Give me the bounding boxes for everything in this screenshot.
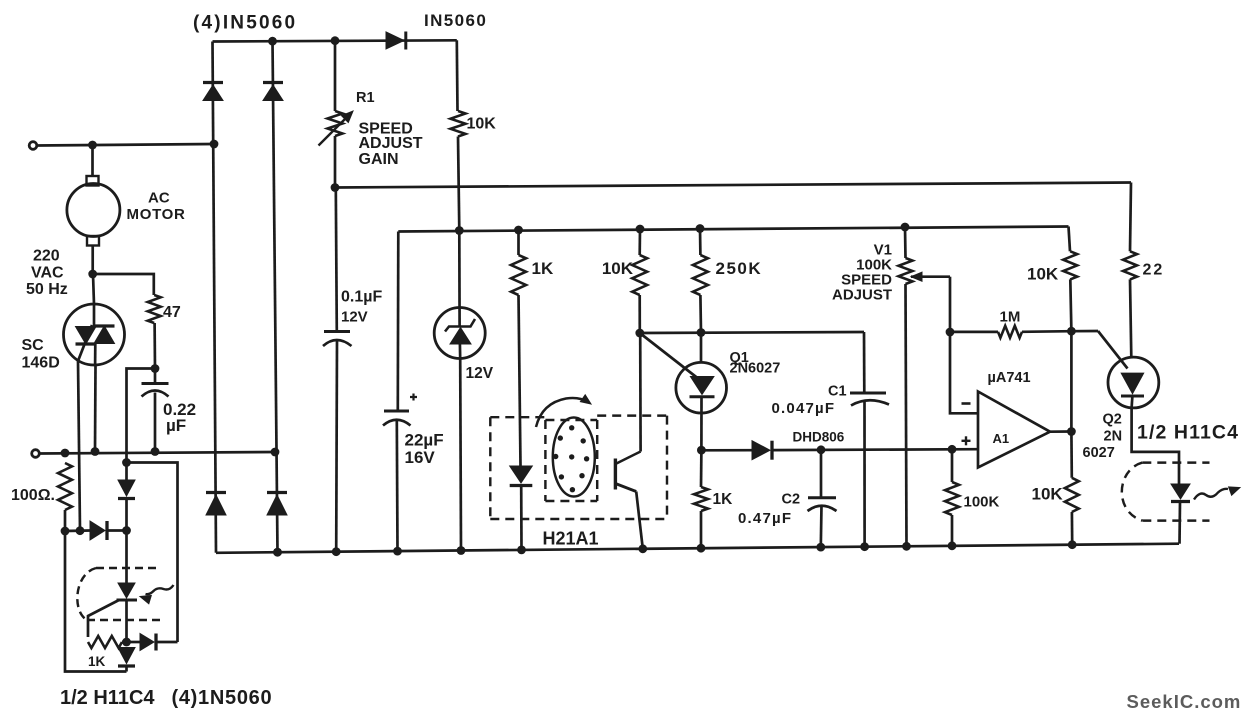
diode opto chain bottom right	[127, 641, 141, 644]
wire top bus	[213, 40, 457, 41]
diode bridge D2	[263, 85, 283, 101]
svg-text:2N6027: 2N6027	[730, 361, 781, 377]
phototransistor H21A1	[614, 459, 617, 490]
wire bridge column 2	[273, 41, 278, 552]
resistor 1M	[950, 331, 998, 334]
wire gate node row	[640, 332, 864, 333]
node Q1 anode	[697, 328, 706, 337]
node 1K cathode ground	[697, 544, 706, 553]
svg-text:µF: µF	[166, 416, 186, 435]
node emitter ground	[638, 544, 647, 553]
wire triac MT1	[94, 365, 97, 452]
svg-text:VAC: VAC	[31, 264, 64, 281]
node triac gate on row	[76, 526, 85, 535]
chopper wheel	[553, 418, 595, 497]
node bridge col2 top	[268, 37, 277, 46]
node C1 ground	[860, 542, 869, 551]
svg-text:10K: 10K	[1032, 485, 1064, 504]
node V1 ground	[902, 542, 911, 551]
svg-text:16V: 16V	[405, 448, 436, 467]
node 0.1uF ground	[332, 547, 341, 556]
node 22uF ground	[393, 547, 402, 556]
wire Q1 gate diagonal	[640, 333, 698, 378]
svg-text:1K: 1K	[713, 491, 734, 508]
wire motor to triac	[91, 246, 94, 275]
node triac MT1 on AC line	[91, 447, 100, 456]
resistor 10K mid	[638, 229, 641, 255]
wire inverting input	[950, 332, 977, 413]
light arrow into SCR	[146, 585, 174, 594]
svg-text:6027: 6027	[1083, 445, 1115, 461]
svg-text:0.1µF: 0.1µF	[341, 289, 382, 306]
svg-text:H21A1: H21A1	[543, 529, 599, 549]
dashed outline H21A1	[490, 416, 545, 418]
svg-text:ADJUST: ADJUST	[832, 287, 892, 304]
wire motor feed	[91, 145, 94, 176]
svg-text:(4)IN5060: (4)IN5060	[193, 13, 297, 34]
diode gate steering	[90, 521, 105, 540]
AC motor M1	[87, 176, 99, 186]
wire bridge column 1	[213, 42, 217, 553]
capacitor C1 0.047uF	[863, 332, 866, 393]
wire triac gate	[78, 361, 80, 531]
resistor 10K top right	[1069, 227, 1071, 252]
svg-text:10K: 10K	[1027, 265, 1059, 284]
wire long feedback line	[335, 183, 1131, 188]
resistor 22	[1123, 251, 1137, 279]
wire 100 ohm to gate row	[64, 510, 67, 531]
svg-text:12V: 12V	[466, 365, 494, 382]
arrow R1 wiper	[319, 116, 349, 146]
node 100 ohm top	[61, 449, 70, 458]
svg-text:SeekIC.com: SeekIC.com	[1127, 691, 1242, 712]
capacitor 22uF 16V	[396, 232, 399, 411]
op-amp A1 uA741	[978, 392, 1050, 468]
terminal input top	[29, 142, 37, 150]
node 10K ground	[1068, 540, 1077, 549]
wire Q2 cathode to LED	[1132, 408, 1179, 484]
resistor 1K mid	[517, 230, 520, 255]
node PUT gate junction	[635, 329, 644, 338]
node 100K top	[948, 445, 957, 454]
wire Q2 gate diagonal	[1071, 330, 1098, 333]
wire photo collector	[639, 333, 642, 452]
dashed slot H21A1	[544, 420, 546, 501]
svg-text:1K: 1K	[532, 259, 554, 278]
svg-text:SC: SC	[22, 337, 45, 354]
node opto top branch	[122, 458, 131, 467]
node rail zener	[455, 226, 464, 235]
node rail 250K	[696, 224, 705, 233]
node snubber bottom	[151, 447, 160, 456]
svg-text:1/2 H11C4: 1/2 H11C4	[1137, 422, 1239, 444]
svg-text:250K: 250K	[716, 259, 763, 278]
svg-text:R1: R1	[356, 90, 375, 106]
diode DHD806	[701, 449, 752, 452]
wire AC line 2	[39, 452, 275, 454]
svg-text:1/2 H11C4: 1/2 H11C4	[60, 687, 155, 709]
triac SC146D	[64, 304, 125, 365]
node C2 ground	[816, 543, 825, 552]
node R1 bottom / long wire	[331, 183, 340, 192]
wire AC line 1	[37, 144, 214, 146]
svg-text:0.047µF: 0.047µF	[772, 400, 836, 417]
dashed outline 1/2 H11C4 left	[96, 567, 158, 569]
diode opto chain bottom	[118, 648, 135, 664]
resistor 100 ohm	[58, 463, 72, 510]
photo-SCR 1/2 H11C4	[118, 583, 135, 598]
diode bridge D4	[267, 495, 287, 515]
svg-text:AC: AC	[148, 189, 170, 206]
svg-text:10K: 10K	[602, 259, 634, 278]
wire photo emitter	[636, 492, 643, 549]
diode 1N5060	[386, 32, 404, 49]
resistor 100K	[951, 449, 954, 482]
svg-text:A1: A1	[993, 431, 1010, 446]
node SCR cathode row	[122, 638, 131, 647]
wire 12V rail	[398, 227, 1068, 232]
node rail 1K	[514, 226, 523, 235]
node AC line 2 to bridge	[271, 448, 280, 457]
svg-text:MOTOR: MOTOR	[127, 206, 186, 223]
svg-text:100K: 100K	[964, 494, 1000, 511]
capacitor 0.1uF	[336, 188, 337, 332]
svg-text:12V: 12V	[341, 309, 368, 326]
node rail V1	[901, 223, 910, 232]
svg-text:GAIN: GAIN	[359, 151, 399, 168]
node gate row right	[122, 526, 131, 535]
svg-text:2N: 2N	[1104, 429, 1123, 445]
svg-text:146D: 146D	[22, 354, 60, 371]
svg-text:µA741: µA741	[988, 370, 1031, 386]
node C2 top	[817, 445, 826, 454]
rotation arrow	[536, 398, 588, 427]
node snubber branch	[88, 270, 97, 279]
capacitor C2 0.47uF	[820, 450, 823, 497]
plus sign	[962, 440, 971, 442]
svg-text:47: 47	[163, 304, 181, 321]
minus sign	[962, 402, 971, 405]
capacitor 0.22uF	[154, 369, 157, 384]
node 1M right	[1067, 327, 1076, 336]
node R1 top	[331, 36, 340, 45]
svg-text:1M: 1M	[1000, 309, 1021, 326]
node 1M left	[946, 328, 955, 337]
node bridge col2 bottom	[273, 548, 282, 557]
wire op-amp output	[1050, 430, 1071, 433]
wire opto right loop	[127, 463, 178, 643]
svg-text:(4)1N5060: (4)1N5060	[172, 687, 273, 709]
light output squiggle	[1194, 489, 1228, 500]
zener diode 12V	[458, 231, 461, 327]
potentiometer V1 100K	[904, 227, 907, 258]
resistor 10K bottom right	[1070, 432, 1073, 478]
wire 47 to cap	[153, 323, 156, 369]
transistor Q1 2N6027	[700, 333, 703, 363]
wire left loop down	[65, 531, 127, 672]
LED H21A1	[510, 466, 533, 483]
gate lead of SCR	[88, 600, 119, 637]
wire ground bus	[216, 544, 1179, 553]
diode bridge D1	[203, 85, 223, 101]
wire snubber to opto chain	[127, 369, 156, 481]
resistor 47	[148, 295, 161, 323]
node zener ground	[457, 546, 466, 555]
svg-text:1K: 1K	[88, 654, 106, 669]
wire gate row	[65, 529, 90, 532]
svg-text:IN5060: IN5060	[424, 11, 487, 30]
svg-text:50 Hz: 50 Hz	[26, 281, 68, 298]
svg-text:10K: 10K	[467, 116, 497, 133]
node LED ground	[517, 546, 526, 555]
svg-text:0.47µF: 0.47µF	[738, 510, 792, 527]
wire long line corner	[1130, 183, 1131, 252]
resistor 1K gate	[88, 636, 122, 648]
wire snubber branch	[93, 274, 154, 295]
node snubber mid	[151, 364, 160, 373]
svg-text:DHD806: DHD806	[793, 430, 845, 445]
node gate row left	[61, 527, 70, 536]
LED output right	[1171, 484, 1190, 499]
node rail 10K mid	[636, 225, 645, 234]
transistor Q2 2N6027	[1108, 357, 1159, 408]
svg-text:220: 220	[33, 248, 60, 265]
svg-text:ADJUST: ADJUST	[359, 135, 423, 152]
node motor top junction	[88, 141, 97, 150]
node bridge col2 ground	[273, 548, 282, 557]
diode bridge D3	[206, 495, 226, 515]
svg-text:C1: C1	[828, 384, 847, 400]
dashed outline 1/2 H11C4 right	[1142, 461, 1209, 463]
resistor 1K cathode	[700, 450, 703, 487]
wire junction to output	[1070, 331, 1073, 431]
svg-text:C2: C2	[782, 492, 801, 508]
node 100K ground	[948, 541, 957, 550]
svg-text:100Ω.: 100Ω.	[11, 487, 55, 504]
resistor 250K	[699, 229, 702, 256]
terminal input bottom	[32, 450, 40, 458]
potentiometer R1	[334, 41, 337, 111]
resistor 10K from bridge	[455, 40, 458, 111]
arrow V1 wiper	[911, 272, 922, 281]
node AC line 1 to bridge	[210, 140, 219, 149]
svg-text:22: 22	[1143, 262, 1165, 279]
diode opto chain top	[118, 480, 135, 496]
svg-text:22µF: 22µF	[405, 431, 444, 450]
node output junction	[1067, 427, 1076, 436]
node Q1 cathode	[697, 446, 706, 455]
svg-text:Q2: Q2	[1103, 412, 1122, 428]
